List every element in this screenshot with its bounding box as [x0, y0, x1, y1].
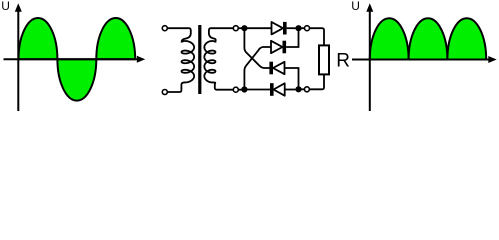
output waveform lobe 3	[447, 18, 486, 59]
wire resistor bottom to terminal	[310, 74, 325, 89]
secondary terminal top	[233, 26, 238, 31]
wire node A to D1 anode	[244, 27, 271, 29]
wire node B to D4 cathode	[244, 89, 270, 91]
output graph horizontal axis t	[352, 56, 497, 63]
output terminal minus	[304, 87, 309, 92]
node B junction dot	[241, 86, 247, 92]
transformer secondary winding L2	[204, 28, 233, 89]
node A junction dot	[241, 25, 247, 31]
wire node B up and diagonal to D2	[244, 47, 271, 90]
svg-text:U: U	[351, 0, 360, 13]
input waveform positive half-wave 1	[19, 18, 58, 59]
node C junction dot	[295, 25, 301, 31]
secondary terminal bottom	[233, 87, 238, 92]
node D junction dot	[295, 86, 301, 92]
diode D1	[272, 22, 287, 35]
wire D4 anode to node D	[285, 89, 299, 91]
wire D2 cathode up to node C	[286, 28, 298, 47]
transformer primary terminal bottom	[162, 90, 167, 95]
wire D1 cathode to node C	[287, 27, 299, 29]
output waveform lobe 2	[409, 18, 448, 59]
svg-text:U: U	[1, 0, 10, 13]
input waveform negative half-wave	[57, 59, 96, 100]
output terminal plus	[305, 26, 310, 31]
diode D2	[271, 41, 286, 54]
wire node A down and diagonal to D3	[244, 28, 269, 68]
wire D3 anode down to node D	[285, 68, 299, 89]
wire node C to terminal	[299, 27, 305, 29]
wire terminal to resistor top	[310, 28, 324, 45]
input graph vertical axis U	[15, 3, 22, 111]
transformer primary terminal top	[162, 26, 167, 31]
diode D3 (pointing left)	[269, 62, 284, 75]
wire secondary top to node A	[238, 27, 246, 29]
transformer core	[198, 25, 201, 94]
input graph horizontal axis t	[4, 56, 146, 63]
wire node D to terminal	[299, 88, 305, 90]
input waveform positive half-wave 2	[96, 18, 135, 59]
output waveform lobe 1	[370, 18, 409, 59]
output graph vertical axis U	[366, 3, 373, 111]
diode D4 (pointing left)	[270, 83, 285, 96]
wire secondary bottom to node B	[238, 89, 246, 91]
svg-text:R: R	[336, 51, 350, 72]
transformer primary winding L1	[167, 28, 194, 92]
resistor R	[319, 45, 329, 74]
